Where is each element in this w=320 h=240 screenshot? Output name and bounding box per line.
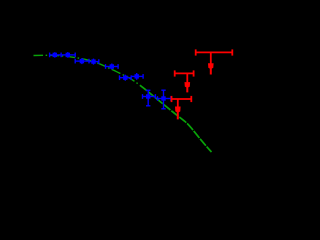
data point P6 — [120, 75, 132, 81]
red upper limit U3 — [172, 96, 192, 120]
model light curve: green line (steep tail) — [140, 85, 212, 152]
data point P5 — [106, 64, 119, 70]
red upper limit U2 — [175, 70, 194, 92]
data point P2 — [61, 52, 75, 58]
data point P8 (with y error bars) — [143, 90, 156, 106]
data point P4 — [89, 59, 99, 65]
data point P9 (with y error bars) — [158, 90, 171, 109]
data point P7 — [131, 73, 143, 80]
model light curve: green dash-dot line (front part) — [34, 55, 141, 85]
data point P1 — [50, 52, 62, 57]
red upper limit U1 — [196, 49, 233, 74]
data point P3 — [75, 58, 89, 64]
